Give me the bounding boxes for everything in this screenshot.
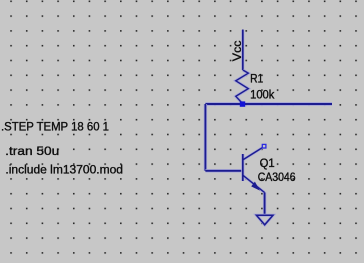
transistor Q1 (243, 148, 265, 193)
svg-text:.include lm13700.mod: .include lm13700.mod (5, 165, 123, 177)
resistor R1 (236, 70, 249, 104)
wire (204, 104, 207, 171)
wire (241, 30, 244, 71)
ground (256, 215, 273, 225)
svg-text:Q1: Q1 (260, 158, 275, 170)
svg-text:.tran 50u: .tran 50u (5, 146, 59, 158)
wire (205, 102, 332, 106)
svg-text:100k: 100k (250, 90, 275, 102)
svg-text:CA3046: CA3046 (258, 172, 296, 184)
wire (205, 169, 242, 172)
svg-text:.STEP TEMP 18 60 1: .STEP TEMP 18 60 1 (1, 121, 109, 133)
wire (263, 192, 266, 215)
svg-text:R1: R1 (250, 73, 263, 85)
junction (240, 101, 245, 106)
unconnected collector pin (262, 144, 266, 148)
